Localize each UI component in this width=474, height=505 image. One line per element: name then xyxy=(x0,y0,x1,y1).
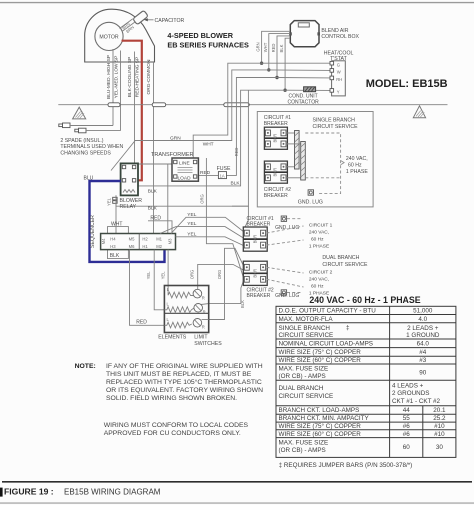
wire RED fused to transformer xyxy=(198,78,277,177)
svg-text:WIRE SIZE (75° C) COPPER: WIRE SIZE (75° C) COPPER xyxy=(279,422,362,430)
svg-text:WIRE SIZE (60° C) COPPER: WIRE SIZE (60° C) COPPER xyxy=(279,356,362,364)
svg-text:MOTOR: MOTOR xyxy=(99,35,118,41)
svg-text:#6: #6 xyxy=(403,431,411,438)
table row texts xyxy=(279,308,447,454)
note 2 spade terminals xyxy=(60,138,123,157)
breaker CB1 single branch xyxy=(264,127,287,149)
svg-text:BLK: BLK xyxy=(231,180,241,186)
svg-text:240 VAC,: 240 VAC, xyxy=(309,277,329,283)
note block xyxy=(75,363,263,437)
svg-text:YEL: YEL xyxy=(187,212,196,218)
svg-text:90: 90 xyxy=(419,370,427,377)
breaker CB2 single branch xyxy=(264,161,287,183)
svg-text:RELAY: RELAY xyxy=(120,204,137,210)
wire WHT from blend box xyxy=(263,34,290,70)
svg-text:RED: RED xyxy=(200,170,211,176)
label LIMIT SWITCHES xyxy=(194,335,222,347)
svg-text:BLK: BLK xyxy=(279,44,284,52)
wire BLK relay to breakers xyxy=(116,90,248,211)
svg-text:2 SPADE (INSUL.): 2 SPADE (INSUL.) xyxy=(60,138,103,144)
svg-text:RED: RED xyxy=(136,319,147,325)
warning triangle left xyxy=(73,107,86,119)
svg-text:BREAKER: BREAKER xyxy=(264,121,288,127)
label CIRCUIT #2 BREAKER (single) xyxy=(264,187,291,199)
svg-text:SOLID. FIELD WIRING SHOWN BROK: SOLID. FIELD WIRING SHOWN BROKEN. xyxy=(106,395,237,402)
svg-text:Y: Y xyxy=(337,90,340,95)
svg-text:TERMINALS USED WHEN: TERMINALS USED WHEN xyxy=(60,144,123,150)
chassis dividing line xyxy=(58,104,447,106)
svg-text:#6: #6 xyxy=(403,423,411,430)
svg-text:60 Hz: 60 Hz xyxy=(311,237,324,243)
svg-text:LINE: LINE xyxy=(179,160,190,166)
wire YEL relay to sequencer xyxy=(106,195,116,233)
wire YEL sequencer to element row1 xyxy=(160,250,168,295)
svg-text:CIRCUIT SERVICE: CIRCUIT SERVICE xyxy=(279,332,334,339)
single branch service outer box xyxy=(257,112,373,207)
svg-text:MAX. FUSE SIZE: MAX. FUSE SIZE xyxy=(279,440,329,447)
wire YEL sequencer to breaker1 c xyxy=(176,231,244,245)
svg-text:#3: #3 xyxy=(419,357,427,364)
svg-text:EB SERIES FURNACES: EB SERIES FURNACES xyxy=(167,41,249,50)
warning triangle right xyxy=(413,106,425,118)
svg-text:GND. LUG: GND. LUG xyxy=(275,293,299,299)
wire WHT at sequencer xyxy=(108,222,129,234)
svg-text:#10: #10 xyxy=(434,431,445,438)
node RH junction xyxy=(275,76,330,79)
svg-text:‡: ‡ xyxy=(346,324,350,331)
svg-text:ORG: ORG xyxy=(200,194,205,204)
svg-text:D.O.E. OUTPUT CAPACITY - BTU: D.O.E. OUTPUT CAPACITY - BTU xyxy=(279,308,377,315)
label CIRCUIT #1 BREAKER (dual) xyxy=(247,216,274,228)
wire RED-HEATING SP (thick red from motor to relay) xyxy=(122,41,142,181)
svg-text:(OR CB) - AMPS: (OR CB) - AMPS xyxy=(279,447,326,454)
svg-text:IF ANY OF THE ORIGINAL WIRE SU: IF ANY OF THE ORIGINAL WIRE SUPPLIED WIT… xyxy=(106,363,263,370)
svg-text:BLK: BLK xyxy=(110,253,120,259)
svg-text:BKR: BKR xyxy=(252,235,257,244)
svg-text:H2: H2 xyxy=(142,236,148,241)
svg-text:CIRCUIT SERVICE: CIRCUIT SERVICE xyxy=(279,393,334,400)
wire YEL sequencer to breaker1 b xyxy=(160,221,243,238)
field dashes circuit 2 xyxy=(267,267,304,287)
svg-text:YEL-MED. LOW SP: YEL-MED. LOW SP xyxy=(114,56,120,99)
svg-text:44: 44 xyxy=(403,407,411,414)
wire ORG transformer load down xyxy=(200,158,244,278)
svg-text:RH: RH xyxy=(336,77,342,82)
svg-text:BREAKER: BREAKER xyxy=(247,293,271,299)
svg-text:CAPACITOR: CAPACITOR xyxy=(155,18,185,24)
svg-text:RED: RED xyxy=(234,148,239,157)
svg-text:OR ITS EQUIVALENT. FACTORY WIR: OR ITS EQUIVALENT. FACTORY WIRING SHOWN xyxy=(106,387,263,394)
spade terminal 2 xyxy=(75,128,121,133)
label CIRCUIT 1 ratings xyxy=(309,223,333,250)
svg-text:R: R xyxy=(202,295,205,300)
svg-text:APPROVED FOR CU CONDUCTORS ONL: APPROVED FOR CU CONDUCTORS ONLY. xyxy=(104,430,241,437)
svg-text:NOMINAL CIRCUIT LOAD-AMPS: NOMINAL CIRCUIT LOAD-AMPS xyxy=(279,341,373,348)
svg-text:MODEL: EB15B: MODEL: EB15B xyxy=(366,78,448,90)
wire BLK to relay xyxy=(138,90,285,194)
breaker CB4 dual branch circuit 2 xyxy=(243,261,267,285)
svg-text:CHANGING SPEEDS: CHANGING SPEEDS xyxy=(60,151,111,157)
gnd lug dual top xyxy=(275,216,302,231)
svg-text:LIMIT: LIMIT xyxy=(194,335,208,341)
svg-text:WIRING MUST CONFORM TO LOCAL C: WIRING MUST CONFORM TO LOCAL CODES xyxy=(104,422,249,429)
field wiring dashes single branch xyxy=(305,133,344,194)
label CIRCUIT #1 BREAKER (single) xyxy=(264,115,291,127)
svg-text:CIRCUIT SERVICE: CIRCUIT SERVICE xyxy=(313,124,359,130)
svg-text:4-SPEED BLOWER: 4-SPEED BLOWER xyxy=(167,31,233,40)
svg-text:CIRCUIT 1: CIRCUIT 1 xyxy=(309,223,333,229)
svg-text:WIRE SIZE (75° C) COPPER: WIRE SIZE (75° C) COPPER xyxy=(279,348,362,356)
spade terminal 1 xyxy=(59,123,113,128)
svg-text:WHT: WHT xyxy=(203,142,214,148)
wire YEL-MED LOW SP xyxy=(114,51,121,131)
wire RED from blend box xyxy=(271,36,290,78)
element HE1 with limit switch xyxy=(167,287,205,300)
svg-text:55: 55 xyxy=(403,415,411,422)
svg-text:YEL: YEL xyxy=(187,231,196,237)
svg-text:CIRCUIT 2: CIRCUIT 2 xyxy=(309,270,333,276)
gnd lug dual bottom xyxy=(275,290,302,299)
svg-text:COND. UNIT: COND. UNIT xyxy=(289,93,318,99)
svg-text:EB15B WIRING DIAGRAM: EB15B WIRING DIAGRAM xyxy=(64,488,161,497)
svg-text:LOAD: LOAD xyxy=(178,176,192,182)
svg-text:‡ REQUIRES JUMPER BARS (P/N 35: ‡ REQUIRES JUMPER BARS (P/N 3500-378/*) xyxy=(279,462,413,469)
title 4-SPEED BLOWER EB SERIES FURNACES xyxy=(167,31,249,50)
blend air control box xyxy=(289,21,359,47)
label CIRCUIT #2 BREAKER (dual) xyxy=(247,287,274,299)
svg-text:BLK: BLK xyxy=(240,300,245,308)
blower housing xyxy=(85,9,155,62)
svg-text:51,000: 51,000 xyxy=(413,308,433,315)
svg-text:FIGURE 19 :: FIGURE 19 : xyxy=(4,487,54,497)
wire BLK from blend box xyxy=(279,38,290,90)
gnd lug (single branch) xyxy=(298,190,323,206)
svg-text:CONTROL BOX: CONTROL BOX xyxy=(321,34,359,40)
figure caption bar xyxy=(0,482,474,503)
svg-text:REPLACED WITH TYPE 105°C THERM: REPLACED WITH TYPE 105°C THERMOPLASTIC xyxy=(106,378,262,386)
wire BLK element row2 to breaker xyxy=(201,281,245,308)
heat/cool thermostat xyxy=(324,50,354,96)
sequencer S1 xyxy=(90,215,176,250)
svg-text:WHT: WHT xyxy=(111,222,122,228)
label DUAL BRANCH CIRCUIT SERVICE xyxy=(322,255,368,268)
node G junction xyxy=(260,62,330,65)
wire BLK to breaker1 d xyxy=(232,206,248,230)
bulkhead connector 3 xyxy=(224,103,249,107)
wire YEL sequencer to element row2 xyxy=(146,250,164,310)
fuse F1 1A xyxy=(217,166,231,179)
svg-text:TRANSFORMER: TRANSFORMER xyxy=(151,152,194,158)
label SINGLE BRANCH CIRCUIT SERVICE xyxy=(313,117,359,130)
wire GRN to transformer xyxy=(170,63,262,158)
svg-text:WHT: WHT xyxy=(263,42,268,52)
element HE2 with limit switch xyxy=(164,302,205,315)
svg-text:MAX. FUSE SIZE: MAX. FUSE SIZE xyxy=(279,366,329,373)
wire BLU-MED HIGH SP xyxy=(106,49,113,126)
svg-text:BKR: BKR xyxy=(252,269,257,278)
svg-text:H1: H1 xyxy=(142,244,148,249)
svg-text:2 GROUNDS: 2 GROUNDS xyxy=(392,390,429,397)
svg-text:#10: #10 xyxy=(434,423,445,430)
svg-text:M1: M1 xyxy=(156,236,162,241)
svg-text:BKR: BKR xyxy=(273,134,278,143)
node W junction xyxy=(267,68,330,71)
bulkhead connector 2 xyxy=(152,103,166,107)
svg-text:CIRCUIT SERVICE: CIRCUIT SERVICE xyxy=(322,262,368,268)
svg-text:M3: M3 xyxy=(168,238,173,244)
label 240VAC 60Hz 1 PHASE (single) xyxy=(346,156,368,175)
svg-text:60 Hz: 60 Hz xyxy=(348,163,362,169)
svg-text:SINGLE BRANCH: SINGLE BRANCH xyxy=(279,325,331,332)
svg-text:H4: H4 xyxy=(110,236,116,241)
svg-text:CONTACTOR: CONTACTOR xyxy=(288,100,320,106)
svg-text:1 PHASE: 1 PHASE xyxy=(309,244,329,250)
wire ORG-COMMON xyxy=(146,59,154,233)
wire GRN from blend box xyxy=(256,31,290,63)
svg-text:M6: M6 xyxy=(129,244,135,249)
svg-text:YEL: YEL xyxy=(160,271,165,280)
svg-text:ORG: ORG xyxy=(190,270,195,280)
svg-text:240 VAC,: 240 VAC, xyxy=(309,230,329,236)
svg-text:YEL: YEL xyxy=(146,271,151,280)
wire RED sequencer to element row3 xyxy=(130,250,165,326)
heating elements box xyxy=(164,286,208,333)
svg-text:ORG: ORG xyxy=(217,270,222,280)
top border rule xyxy=(0,2,474,4)
svg-text:BRANCH CKT. LOAD-AMPS: BRANCH CKT. LOAD-AMPS xyxy=(279,407,360,414)
svg-text:2 LEADS +: 2 LEADS + xyxy=(407,325,439,332)
capacitor C1 xyxy=(133,10,149,24)
blower relay K1 xyxy=(121,163,138,195)
breaker CB3 dual branch circuit 1 xyxy=(243,227,267,251)
svg-text:MAX. MOTOR-FLA: MAX. MOTOR-FLA xyxy=(279,316,334,323)
label CAPACITOR with arrow xyxy=(144,18,185,24)
capacitor leads BRN xyxy=(120,19,136,34)
wire transformer to sequencer xyxy=(167,164,169,234)
svg-text:H3: H3 xyxy=(110,244,116,249)
jumper bar B xyxy=(286,142,305,181)
svg-text:THIS UNIT MUST BE REPLACED, IT: THIS UNIT MUST BE REPLACED, IT MUST BE xyxy=(106,371,252,378)
svg-text:RED: RED xyxy=(150,215,161,221)
svg-text:4.0: 4.0 xyxy=(418,316,427,323)
wire ORG element row3 to breaker xyxy=(209,248,244,319)
cond unit contactor xyxy=(288,87,320,106)
svg-text:BLK: BLK xyxy=(148,206,158,212)
svg-text:YEL: YEL xyxy=(187,221,196,227)
svg-text:60 Hz: 60 Hz xyxy=(311,284,324,290)
ratings table xyxy=(276,306,456,457)
svg-text:DUAL BRANCH: DUAL BRANCH xyxy=(322,255,359,261)
svg-text:BLU-MED. HIGH SP: BLU-MED. HIGH SP xyxy=(106,55,112,99)
wire WHT to relay xyxy=(111,70,269,171)
svg-text:1 GROUND: 1 GROUND xyxy=(406,332,440,339)
svg-text:25.2: 25.2 xyxy=(433,415,446,422)
svg-text:M2: M2 xyxy=(156,244,162,249)
label CIRCUIT 2 ratings xyxy=(309,270,333,297)
svg-text:BKR: BKR xyxy=(273,168,278,177)
svg-text:G: G xyxy=(337,62,340,67)
svg-text:4 LEADS +: 4 LEADS + xyxy=(392,383,424,390)
svg-text:SINGLE BRANCH: SINGLE BRANCH xyxy=(313,117,356,123)
svg-text:R: R xyxy=(202,325,205,330)
wire BLK-COOLING SP xyxy=(127,52,134,164)
svg-text:BLK-COOLING SP: BLK-COOLING SP xyxy=(127,57,133,98)
svg-text:240 VAC,: 240 VAC, xyxy=(346,156,368,162)
svg-text:NOTE:: NOTE: xyxy=(75,363,96,370)
svg-text:BLK: BLK xyxy=(148,188,158,194)
svg-text:(OR CB) - AMPS: (OR CB) - AMPS xyxy=(279,373,326,380)
svg-text:GND. LUG: GND. LUG xyxy=(275,225,299,231)
svg-text:YEL: YEL xyxy=(106,197,111,206)
wire BLU field loop xyxy=(84,176,165,262)
bulkhead connector 1 xyxy=(108,103,120,107)
svg-text:FUSE: FUSE xyxy=(217,166,231,172)
jumper bar A xyxy=(286,131,299,170)
svg-text:R: R xyxy=(203,310,206,315)
svg-text:GND. LUG: GND. LUG xyxy=(298,200,323,206)
svg-text:BRANCH CKT. MIN. AMPACITY: BRANCH CKT. MIN. AMPACITY xyxy=(279,415,370,422)
wire RED at sequencer xyxy=(148,215,172,233)
wire BLK below sequencer xyxy=(108,250,129,260)
motor M1 xyxy=(95,22,123,50)
svg-text:M5: M5 xyxy=(129,236,135,241)
svg-text:1A: 1A xyxy=(220,173,225,178)
svg-text:RED-HEATING SP: RED-HEATING SP xyxy=(135,57,141,97)
wire relay to transformer line xyxy=(138,163,172,165)
svg-text:20.1: 20.1 xyxy=(433,407,446,414)
svg-text:240 VAC - 60 Hz - 1 PHASE: 240 VAC - 60 Hz - 1 PHASE xyxy=(309,295,420,305)
svg-text:30: 30 xyxy=(436,444,444,451)
svg-text:1 PHASE: 1 PHASE xyxy=(346,169,368,175)
transformer T1 xyxy=(151,152,198,182)
svg-text:64.0: 64.0 xyxy=(417,341,430,348)
svg-text:BREAKER: BREAKER xyxy=(264,193,288,199)
element HE3 with limit switch xyxy=(164,317,208,330)
wire YEL sequencer to breaker1 a xyxy=(171,212,243,234)
svg-text:DUAL BRANCH: DUAL BRANCH xyxy=(279,385,324,392)
svg-text:#4: #4 xyxy=(419,349,427,356)
svg-text:60: 60 xyxy=(403,444,411,451)
label BLOWER RELAY with spade icon xyxy=(113,197,143,210)
field dashes circuit 1 xyxy=(267,226,304,245)
svg-text:SWITCHES: SWITCHES xyxy=(194,341,222,347)
svg-text:ELEMENTS: ELEMENTS xyxy=(158,335,187,341)
svg-text:WIRE SIZE (60° C) COPPER: WIRE SIZE (60° C) COPPER xyxy=(279,430,362,438)
svg-text:BLU: BLU xyxy=(84,176,94,182)
svg-text:BLOWER: BLOWER xyxy=(120,198,143,204)
svg-text:ORG-COMMON: ORG-COMMON xyxy=(146,59,152,94)
svg-text:GRN: GRN xyxy=(256,42,261,51)
svg-text:RED: RED xyxy=(271,44,276,53)
svg-text:CKT #1 - CKT #2: CKT #1 - CKT #2 xyxy=(392,398,441,405)
svg-text:M4: M4 xyxy=(101,238,106,244)
svg-text:W: W xyxy=(337,70,341,75)
svg-text:SEQUENCER: SEQUENCER xyxy=(90,215,96,248)
node Y junction xyxy=(283,89,330,92)
wire ORG element row1 to breaker xyxy=(190,264,244,289)
